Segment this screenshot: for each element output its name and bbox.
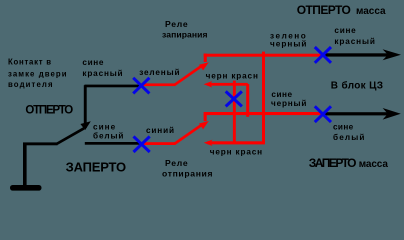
svg-text:сине: сине — [82, 58, 103, 67]
relay K2 fixed contact stub — [204, 114, 207, 121]
wire сине-белый (black, to X4) — [85, 142, 142, 145]
node X1 — [133, 78, 149, 94]
label сине белый (left) — [93, 122, 123, 140]
wire black arrow to В блок ЦЗ — [323, 108, 401, 120]
svg-text:В блок ЦЗ: В блок ЦЗ — [331, 80, 383, 92]
label зелено черный — [270, 31, 306, 48]
svg-text:синий: синий — [146, 126, 174, 135]
label Реле отпирания — [162, 158, 213, 179]
wire relay K2 coil line B with left arrow — [204, 81, 248, 87]
svg-text:красный: красный — [334, 37, 375, 46]
node X5 — [315, 106, 331, 122]
svg-text:черный: черный — [271, 99, 306, 108]
label ЗАПЕРТО масса (bottom right) — [309, 156, 389, 170]
relay K2 contact arm — [175, 121, 209, 144]
svg-text:сине: сине — [333, 122, 354, 131]
svg-text:запирания: запирания — [162, 30, 208, 40]
svg-text:черный: черный — [270, 40, 306, 49]
wire сине-красный (black, to X1) — [85, 85, 142, 88]
wire line D with left arrow — [204, 140, 265, 146]
label ОТПЕРТО масса (top right) — [297, 3, 386, 17]
wire red from X4 (синий) — [141, 142, 176, 145]
label сине черный (right) — [271, 90, 306, 108]
wire red from X1 (зеленый) — [141, 83, 176, 86]
wire switch common horizontal — [23, 142, 58, 145]
svg-text:отпирания: отпирания — [162, 168, 213, 178]
svg-text:масса: масса — [359, 159, 389, 170]
svg-text:ОТПЕРТО: ОТПЕРТО — [297, 3, 351, 17]
ground — [10, 144, 42, 191]
svg-text:ОТПЕРТО: ОТПЕРТО — [25, 104, 73, 116]
svg-text:черн красн: черн красн — [206, 72, 258, 81]
label Контакт в замке двери водителя — [8, 58, 67, 89]
svg-text:Реле: Реле — [165, 19, 188, 29]
svg-text:красный: красный — [82, 69, 122, 78]
svg-text:белый: белый — [333, 132, 364, 142]
relay K1 fixed contact stub — [204, 54, 207, 63]
relay K1 contact arm — [175, 62, 209, 84]
label Реле запирания — [162, 19, 208, 40]
wire V3 vertical through X3 — [233, 81, 236, 143]
svg-text:зеленый: зеленый — [139, 68, 179, 77]
wire line A red (to X2) — [204, 54, 321, 57]
wire line C red (to X5) — [204, 112, 321, 115]
svg-text:замке двери: замке двери — [8, 69, 67, 78]
svg-text:ЗАПЕРТО: ЗАПЕРТО — [66, 160, 127, 175]
svg-text:Контакт в: Контакт в — [8, 58, 51, 67]
node X2 — [315, 47, 331, 63]
label сине красный (left) — [82, 58, 122, 78]
svg-text:Реле: Реле — [165, 158, 188, 168]
wire black arrow to ОТПЕРТО масса — [323, 49, 401, 60]
svg-text:ЗАПЕРТО: ЗАПЕРТО — [309, 156, 357, 170]
node ОТПЕРТО contact post — [84, 85, 87, 128]
svg-text:масса: масса — [356, 6, 386, 17]
switch arm (Контакт в замке) — [57, 121, 91, 144]
label сине белый (right) — [333, 122, 364, 142]
svg-text:белый: белый — [93, 130, 123, 140]
svg-text:сине: сине — [334, 26, 356, 35]
svg-text:сине: сине — [93, 122, 116, 131]
wire V2 vertical — [246, 84, 249, 117]
svg-text:черн красн: черн красн — [210, 148, 262, 157]
svg-text:сине: сине — [271, 90, 292, 99]
wire V1 vertical — [262, 52, 265, 144]
node X3 — [226, 91, 242, 106]
svg-text:водителя: водителя — [8, 80, 53, 89]
node X4 — [134, 136, 150, 152]
label сине красный (top right) — [334, 26, 375, 46]
